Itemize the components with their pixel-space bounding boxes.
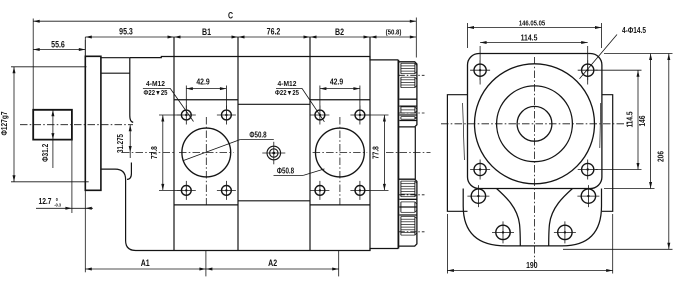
leader through B1 top-left hole xyxy=(170,88,193,121)
neck bottom silhouette with fillet xyxy=(101,169,126,179)
B2 circle vertical centerline xyxy=(339,117,341,207)
end view: horizontal centerline xyxy=(441,123,628,125)
side view: main shaft centerline xyxy=(20,124,133,126)
body front face edge xyxy=(130,58,133,123)
neck boss top silhouette xyxy=(101,57,130,59)
pilot circle phi127 xyxy=(475,64,595,184)
flange hole top-right xyxy=(578,60,598,80)
svg-text:4-M12: 4-M12 xyxy=(278,80,297,88)
lower body inner curve left xyxy=(497,189,521,246)
B2 circle horizontal centerline xyxy=(313,152,368,154)
flange hole bottom-left xyxy=(470,160,490,180)
B2 bolt hole top-right M12 xyxy=(350,106,369,125)
body bottom outline xyxy=(126,180,399,251)
dimension 114.5 horizontal xyxy=(479,46,481,85)
svg-text:Φ50.8: Φ50.8 xyxy=(249,132,266,140)
svg-text:114.5: 114.5 xyxy=(625,111,635,127)
B2 face top edge xyxy=(310,99,370,101)
chained dimension line 95.3 B1 76.2 B2 (50.8) xyxy=(85,36,416,38)
section joint line x174 xyxy=(173,37,175,251)
svg-text:146.05.05: 146.05.05 xyxy=(519,20,546,28)
B1 circle vertical centerline xyxy=(205,117,207,207)
B1 bolt hole top-left M12 xyxy=(177,106,196,125)
lower body inner curve right xyxy=(549,189,573,246)
svg-text:(50.8): (50.8) xyxy=(386,29,402,37)
svg-text:55.6: 55.6 xyxy=(51,40,65,50)
svg-text:B1: B1 xyxy=(202,27,211,37)
middle port small circles xyxy=(267,146,281,160)
rear threaded port block lower xyxy=(398,179,424,246)
port pad edge between blocks xyxy=(414,127,416,179)
svg-text:95.3: 95.3 xyxy=(119,27,133,37)
middle section bottom edge xyxy=(238,200,310,202)
dimension phi127g7 xyxy=(11,66,87,68)
rear body right edge xyxy=(602,95,613,212)
dimension 31.275 xyxy=(129,125,131,158)
svg-text:206: 206 xyxy=(656,151,666,162)
svg-text:Φ50.8: Φ50.8 xyxy=(277,168,294,176)
B1 circle horizontal centerline xyxy=(179,152,234,154)
body top outline xyxy=(130,57,399,60)
svg-text:4-M12: 4-M12 xyxy=(146,80,165,88)
svg-text:C: C xyxy=(228,11,233,21)
svg-text:146: 146 xyxy=(637,116,647,127)
B2 bolt hole bottom-right M12 xyxy=(350,181,369,200)
body taper edge left xyxy=(463,103,465,160)
B1 face top edge xyxy=(174,99,238,101)
svg-text:Φ22▼25: Φ22▼25 xyxy=(144,90,168,98)
dimension 77.8 (B2) xyxy=(364,114,389,116)
dimension 190 bottom xyxy=(446,214,448,274)
svg-text:4-Φ14.5: 4-Φ14.5 xyxy=(622,25,646,35)
body taper edge right xyxy=(599,103,602,148)
B1 port circle xyxy=(182,128,231,177)
B1 bolt hole bottom-right M12 xyxy=(217,181,236,200)
dimension 114.5 vertical xyxy=(596,69,642,71)
B2 face bottom edge xyxy=(310,204,370,206)
rear body left edge xyxy=(447,95,467,212)
svg-text:77.8: 77.8 xyxy=(149,146,159,159)
svg-text:Φ31.2: Φ31.2 xyxy=(40,144,50,162)
section joint line x370 xyxy=(369,37,371,251)
leader through B2 top-left hole xyxy=(302,88,324,121)
dimension C overall length xyxy=(33,20,416,22)
svg-text:114.5: 114.5 xyxy=(521,33,538,43)
neck internal edge xyxy=(101,72,130,74)
dimension 206 vertical xyxy=(563,248,673,250)
dimension A1 A2 xyxy=(205,251,207,277)
svg-text:77.8: 77.8 xyxy=(371,146,381,159)
middle port v tick xyxy=(273,142,275,165)
svg-text:190: 190 xyxy=(526,260,537,270)
dimension 42.9 (B2) xyxy=(319,86,321,110)
dimension 77.8 (B1) xyxy=(159,114,183,116)
lower body outline xyxy=(463,189,601,246)
svg-text:Φ22▼25: Φ22▼25 xyxy=(275,90,299,98)
rear mount hole right xyxy=(577,185,599,207)
shaft hole circle xyxy=(517,106,552,141)
rear mount hole left xyxy=(467,185,489,207)
dimension 42.9 (B1) xyxy=(185,86,187,110)
middle section top edge xyxy=(238,103,310,105)
svg-text:Φ127g7: Φ127g7 xyxy=(0,112,9,136)
section joint line x310 xyxy=(309,37,311,251)
mounting flange square xyxy=(468,54,602,189)
rear cover face xyxy=(397,60,399,249)
extension line right end xyxy=(415,18,417,58)
B1 face bottom edge xyxy=(174,204,238,206)
B1 bolt hole top-right M12 xyxy=(217,106,236,125)
port centerline stub xyxy=(122,152,174,154)
rear port face centerline xyxy=(386,152,431,154)
dimension 55.6 xyxy=(33,49,85,51)
shaft xyxy=(33,110,72,140)
middle port h tick xyxy=(262,152,285,154)
body front face lower edge xyxy=(127,163,131,180)
boss circle xyxy=(497,86,573,162)
rear threaded port block upper xyxy=(398,62,424,127)
svg-text:A2: A2 xyxy=(268,258,277,268)
B2 bolt hole bottom-left M12 xyxy=(310,181,329,200)
flange hole top-left xyxy=(470,60,490,80)
svg-text:42.9: 42.9 xyxy=(330,77,344,87)
dimension 146 vertical xyxy=(604,53,673,55)
svg-text:-0.3: -0.3 xyxy=(54,202,61,208)
dimension 146+-0.05 xyxy=(467,23,469,48)
B2 port circle xyxy=(316,128,365,177)
lower hole left xyxy=(492,221,514,243)
svg-text:76.2: 76.2 xyxy=(267,27,281,37)
svg-text:42.9: 42.9 xyxy=(196,77,210,87)
dimension 12.7-0.3 xyxy=(71,140,73,213)
svg-text:B2: B2 xyxy=(335,27,344,37)
section joint line x238 xyxy=(237,37,239,251)
mounting flange plate xyxy=(85,56,101,190)
lower hole right xyxy=(554,221,576,243)
extension line shaft end xyxy=(32,19,34,110)
extension line flange face to A1 xyxy=(84,190,86,272)
svg-text:A1: A1 xyxy=(141,258,150,268)
B2 bolt hole top-left M12 xyxy=(310,106,329,125)
flange hole bottom-right xyxy=(578,160,598,180)
B1 bolt hole bottom-left M12 xyxy=(177,181,196,200)
svg-text:31.275: 31.275 xyxy=(118,134,126,153)
end view: vertical centerline xyxy=(534,57,536,266)
dimension phi31.2 line xyxy=(52,110,54,168)
svg-text:12.7: 12.7 xyxy=(38,196,51,206)
